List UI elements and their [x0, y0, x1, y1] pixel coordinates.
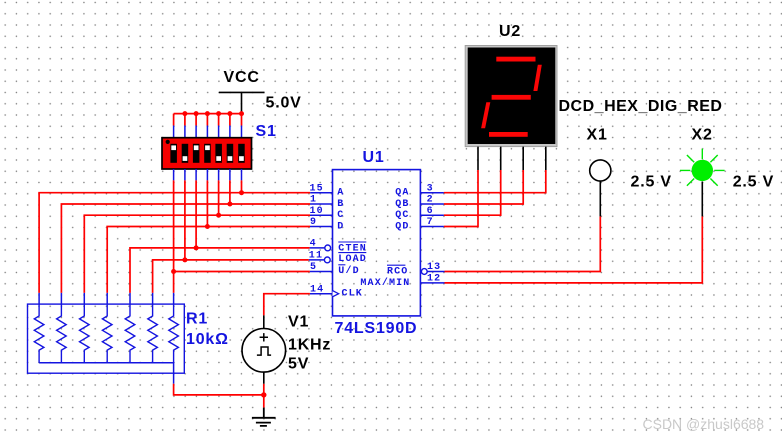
- svg-text:9: 9: [310, 217, 317, 228]
- svg-text:VCC: VCC: [224, 69, 260, 86]
- resistor R1 element 2: [57, 304, 67, 363]
- wire net D : S1.4 to U1 pin9 and R1 column4: [107, 180, 310, 293]
- svg-text:1: 1: [310, 195, 317, 206]
- junction net B: [227, 202, 232, 207]
- junction net U/D: [171, 269, 176, 274]
- svg-text:U1: U1: [363, 149, 385, 166]
- svg-text:U2: U2: [499, 23, 521, 40]
- U2 lit segment D (bottom): [489, 132, 528, 137]
- wire net QC : U1 pin6 to U2 pin2: [444, 170, 501, 215]
- svg-text:5: 5: [310, 262, 317, 273]
- junction net A: [239, 190, 244, 195]
- pin name U/D with overline on U: [338, 265, 359, 277]
- wire stubs entering R1 (blue): [39, 293, 174, 304]
- resistor R1 element 7: [169, 304, 179, 363]
- source V1 (1KHz 5V square wave): [242, 315, 286, 383]
- wire net LOAD : S1.2 to U1 pin11 and R1 column6: [153, 180, 309, 293]
- R1 internal common bus wire: [39, 363, 174, 384]
- wire net CLK : V1 plus to U1 pin14: [264, 294, 310, 316]
- resistor R1 element 1: [34, 304, 44, 363]
- probe X2 (lit green lamp): [680, 149, 725, 217]
- wire net ground : R1 common and V1 minus to ground: [174, 384, 264, 408]
- junction dots on VCC bus: [182, 111, 244, 116]
- wire net B : S1.6 to U1 pin1 and R1 column2: [61, 180, 310, 293]
- wire net C : S1.5 to U1 pin10 and R1 column3: [84, 180, 310, 293]
- wire net QD : U1 pin7 to U2 pin1: [444, 170, 478, 227]
- pin name RCO with overline: [387, 265, 408, 277]
- svg-text:S1: S1: [256, 123, 277, 140]
- svg-text:X2: X2: [692, 126, 713, 143]
- svg-text:QB: QB: [395, 199, 409, 210]
- pin name CTEN with overline: [338, 242, 367, 254]
- wire net A : S1.7 to U1 pin15 and R1 column1: [39, 180, 310, 293]
- probe X1 (voltage indicator): [590, 160, 611, 217]
- junction net D: [205, 224, 210, 229]
- switch S1 body: [162, 138, 252, 169]
- junction net C: [216, 213, 221, 218]
- svg-text:4: 4: [310, 239, 317, 250]
- wire net QA : U1 pin3 to U2 pin4: [444, 170, 546, 193]
- svg-text:CSDN @zhusl6688: CSDN @zhusl6688: [643, 416, 765, 432]
- svg-text:15: 15: [310, 183, 324, 194]
- junction ground net: [261, 392, 266, 397]
- svg-text:CLK: CLK: [342, 289, 363, 300]
- S1 bottom pin stubs (blue): [174, 169, 242, 180]
- svg-text:2: 2: [427, 195, 434, 206]
- svg-text:6: 6: [427, 206, 434, 217]
- svg-text:R1: R1: [186, 310, 208, 327]
- power VCC symbol: [219, 92, 265, 113]
- pin bubble LOAD pin11: [324, 257, 330, 263]
- U2 lit segment E (bottom left): [481, 102, 490, 128]
- junction net LOAD: [182, 257, 187, 262]
- svg-text:RCO: RCO: [387, 267, 408, 278]
- ground symbol: [252, 408, 276, 426]
- op-amp U1 74LS190D body box: [333, 170, 421, 316]
- svg-text:U/D: U/D: [338, 265, 359, 277]
- wire net CTEN : S1.3 to U1 pin4 and R1 column5: [130, 180, 310, 293]
- resistor R1 element 3: [80, 304, 90, 363]
- resistor R1 element 5: [125, 304, 135, 363]
- svg-text:QA: QA: [395, 188, 409, 199]
- junction net CTEN: [194, 245, 199, 250]
- svg-text:5V: 5V: [288, 356, 309, 373]
- pin bubble CTEN pin4: [325, 245, 331, 251]
- svg-text:10kΩ: 10kΩ: [186, 331, 229, 348]
- wire net U/D : S1.1 to U1 pin5 and R1 column7: [174, 180, 310, 293]
- svg-text:QD: QD: [395, 222, 409, 233]
- wire net RCO : U1 pin13 to probe X1: [445, 216, 601, 271]
- svg-text:12: 12: [427, 274, 441, 285]
- U1 right pin stubs: [420, 193, 444, 283]
- wire VCC bus to S1 tops: [174, 114, 242, 126]
- display U2 seven-segment body: [465, 46, 557, 147]
- svg-text:MAX/MIN: MAX/MIN: [360, 277, 410, 289]
- svg-text:7: 7: [427, 217, 434, 228]
- pin name LOAD with overline: [338, 253, 367, 265]
- svg-text:14: 14: [310, 284, 324, 295]
- svg-text:10: 10: [310, 206, 324, 217]
- svg-text:13: 13: [427, 262, 441, 273]
- svg-text:V1: V1: [288, 313, 309, 330]
- resistor R1 network box: [28, 304, 185, 373]
- U2 lit segment B (top right): [533, 65, 541, 91]
- S1 top pin stubs (blue): [174, 126, 242, 138]
- svg-text:1KHz: 1KHz: [288, 337, 331, 354]
- svg-text:A: A: [337, 188, 344, 199]
- U2 lit segment A (top): [496, 57, 535, 62]
- svg-text:DCD_HEX_DIG_RED: DCD_HEX_DIG_RED: [559, 98, 723, 115]
- clock triangle CLK pin14: [333, 291, 339, 297]
- svg-text:D: D: [337, 222, 344, 233]
- svg-text:C: C: [337, 210, 344, 221]
- svg-text:2.5 V: 2.5 V: [631, 173, 672, 190]
- U2 pin leads: [478, 147, 546, 170]
- svg-text:B: B: [337, 199, 344, 210]
- pin bubble RCO pin13: [421, 269, 427, 275]
- svg-text:74LS190D: 74LS190D: [335, 320, 418, 337]
- resistor R1 element 6: [148, 304, 158, 363]
- svg-text:5.0V: 5.0V: [266, 94, 302, 111]
- wire net MAXMIN : U1 pin12 to probe X2: [445, 216, 703, 283]
- svg-text:LOAD: LOAD: [338, 254, 367, 265]
- U1 left pin stubs: [309, 193, 333, 294]
- svg-text:X1: X1: [587, 126, 608, 143]
- U2 lit segment G (middle): [492, 95, 531, 100]
- svg-text:QC: QC: [395, 210, 409, 221]
- svg-text:11: 11: [309, 251, 323, 262]
- svg-text:3: 3: [427, 183, 434, 194]
- resistor R1 element 4: [102, 304, 112, 363]
- svg-text:2.5 V: 2.5 V: [733, 173, 774, 190]
- wire net QB : U1 pin2 to U2 pin3: [444, 170, 523, 204]
